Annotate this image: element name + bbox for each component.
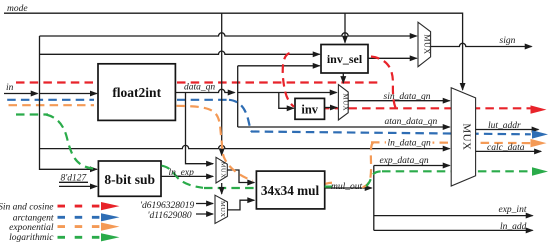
float2int block bbox=[98, 64, 175, 121]
wire inv_sel output to top mux input 2 bbox=[368, 57, 417, 59]
green curve ln_exp down to mul line bbox=[162, 166, 204, 188]
svg-text:exp_int: exp_int bbox=[499, 205, 527, 215]
wire select chain mux A to mux B bbox=[221, 183, 223, 194]
svg-text:8-bit sub: 8-bit sub bbox=[104, 172, 155, 187]
wire data_qn from float2int bbox=[175, 89, 234, 92]
wire constant 1 into operand mux B bbox=[196, 203, 213, 205]
orange ln_data_qn line bbox=[371, 141, 531, 144]
mux (mul operand B select) bbox=[215, 195, 228, 223]
wire select drop to inv_sel bbox=[344, 13, 346, 42]
inv block bbox=[295, 98, 325, 119]
svg-text:exponential: exponential bbox=[9, 223, 54, 233]
svg-text:mode: mode bbox=[7, 4, 28, 14]
wire sign output (with hop) bbox=[431, 43, 532, 46]
green curve up to log output line bbox=[366, 171, 383, 186]
red branch through inv_sel input / down to inv bbox=[283, 53, 294, 107]
wire 8'd127 underline bbox=[59, 181, 88, 183]
svg-text:calc_data: calc_data bbox=[487, 143, 525, 153]
wire exp_int output bbox=[374, 215, 533, 217]
svg-text:lut_addr: lut_addr bbox=[488, 121, 521, 131]
svg-text:arctangent: arctangent bbox=[13, 213, 54, 223]
wire data_qn vertical branch bbox=[237, 66, 239, 127]
svg-text:ln_exp: ln_exp bbox=[169, 168, 195, 178]
wire mul_out vertical distribution bbox=[373, 166, 375, 231]
svg-text:exp_data_qn: exp_data_qn bbox=[380, 156, 429, 166]
svg-text:34x34 mul: 34x34 mul bbox=[261, 183, 320, 198]
svg-text:float2int: float2int bbox=[112, 85, 161, 100]
green curve in-line down to 8-bit sub input bbox=[46, 115, 96, 169]
svg-text:'d6196328019: 'd6196328019 bbox=[140, 201, 195, 211]
wire in-tap vertical down to 8-bit sub bbox=[40, 36, 97, 169]
blue atan output line bbox=[251, 132, 531, 135]
red output arrowhead bbox=[531, 105, 547, 113]
legend red line bbox=[58, 205, 101, 208]
wire in-tap bus to inv_sel input 1 (with hop) bbox=[40, 51, 320, 54]
wire ln_add output bbox=[374, 229, 533, 231]
blue output arrowhead bbox=[532, 130, 548, 138]
svg-text:MUX: MUX bbox=[460, 123, 472, 150]
green log output line bbox=[382, 170, 531, 172]
wire constant 2 into operand mux B bbox=[196, 213, 213, 215]
svg-text:inv: inv bbox=[301, 103, 318, 117]
svg-text:ln_data_qn: ln_data_qn bbox=[388, 139, 432, 149]
wire atan_data_qn to right mux bbox=[238, 126, 450, 128]
blue arctangent line left of float2int bbox=[4, 99, 95, 101]
svg-text:8'd127: 8'd127 bbox=[61, 174, 88, 184]
wire data_qn drop into inv bbox=[279, 93, 294, 109]
wire operand mux B output to mul bbox=[228, 200, 255, 210]
wire mode: horizontal + drop into right mux select bbox=[4, 13, 463, 90]
svg-text:'d11629080: 'd11629080 bbox=[148, 211, 192, 221]
orange curve up to ln_data_qn line bbox=[362, 142, 374, 187]
wire lut_addr output bbox=[476, 129, 539, 131]
svg-text:logarithmic: logarithmic bbox=[9, 233, 54, 243]
svg-text:sign: sign bbox=[500, 36, 516, 46]
svg-text:inv_sel: inv_sel bbox=[327, 52, 363, 66]
orange swoop data_qn to mul bbox=[177, 106, 253, 181]
blue arctangent line right of float2int bbox=[177, 99, 229, 101]
node mul_out bbox=[332, 181, 363, 187]
red curve inv_sel output down to sin line bbox=[371, 57, 396, 109]
wire data_qn tap down to operand mux A input 1 bbox=[186, 93, 214, 164]
wire ln_data_qn long line (with hops) bbox=[40, 145, 450, 148]
mux (sin/atan select) bbox=[338, 85, 348, 120]
wire inv output to sin/atan mux input 2 bbox=[325, 107, 337, 109]
svg-text:Sin and cosine: Sin and cosine bbox=[0, 203, 54, 213]
svg-text:MUX: MUX bbox=[220, 162, 227, 179]
svg-text:sin_data_qn: sin_data_qn bbox=[384, 92, 431, 102]
green output arrowhead bbox=[532, 167, 548, 175]
wire operand mux A output to mul bbox=[227, 170, 254, 183]
node ln_data_qn bbox=[386, 137, 433, 147]
red sin/cosine line left of float2int bbox=[16, 81, 94, 83]
red sin/cosine line right of float2int bbox=[177, 81, 379, 83]
green dash at mul output bbox=[325, 186, 332, 188]
wire mul_out bbox=[325, 187, 372, 189]
orange along mul_out bbox=[326, 183, 342, 185]
svg-text:MUX: MUX bbox=[341, 93, 349, 111]
8-bit sub block bbox=[98, 161, 161, 196]
svg-text:atan_data_qn: atan_data_qn bbox=[385, 117, 438, 127]
mux (output select, right) bbox=[451, 88, 475, 186]
wire in to float2int bbox=[40, 93, 97, 95]
legend blue line bbox=[58, 216, 101, 219]
wire sin_data_qn to right mux bbox=[348, 100, 449, 102]
mux (sign select, top) bbox=[418, 22, 431, 66]
green line into 8-bit sub bbox=[16, 113, 48, 115]
wire inv_sel select to sin/atan mux bbox=[342, 73, 344, 83]
svg-text:in: in bbox=[6, 83, 14, 93]
wire exp_data_qn to right mux bbox=[374, 165, 450, 167]
red sin output line bbox=[321, 107, 531, 109]
mux (mul operand A select) bbox=[216, 157, 227, 183]
svg-text:MUX: MUX bbox=[219, 201, 226, 218]
svg-text:data_qn: data_qn bbox=[184, 83, 215, 93]
blue curve down to atan line bbox=[229, 100, 252, 132]
legend green line bbox=[58, 236, 101, 239]
wire in-tap bus to top mux input 1 (with hops) bbox=[40, 33, 417, 36]
wire calc_data output bbox=[476, 150, 541, 152]
wire 8'd127 into 8-bit sub bbox=[59, 185, 97, 187]
orange exponential line left of float2int bbox=[9, 104, 95, 106]
orange output arrowhead bbox=[531, 139, 547, 147]
green line into 34x34 mul bbox=[204, 187, 255, 189]
wire data_qn to inv_sel input 2 bbox=[238, 65, 320, 67]
svg-text:MUX: MUX bbox=[422, 34, 431, 54]
inv_sel block bbox=[321, 45, 368, 74]
wire data_qn to sin/atan mux input 1 bbox=[238, 92, 337, 94]
wire ln_exp from 8-bit sub to operand mux A input 2 bbox=[161, 175, 213, 177]
wire select drop to operand mux chain bbox=[221, 13, 223, 155]
svg-text:mul_out: mul_out bbox=[331, 182, 363, 192]
34x34 mul block bbox=[256, 171, 324, 209]
svg-text:ln_add: ln_add bbox=[500, 222, 527, 232]
wire in (left stub) bbox=[4, 93, 38, 95]
legend orange line bbox=[58, 225, 101, 228]
